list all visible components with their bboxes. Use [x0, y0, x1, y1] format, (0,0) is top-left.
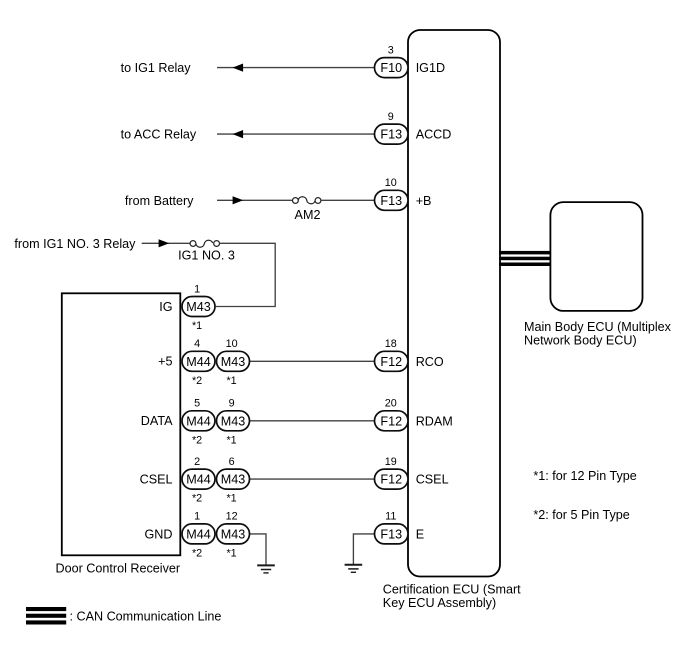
svg-text:M43: M43 [221, 414, 246, 428]
svg-text:F10: F10 [380, 61, 402, 75]
svg-text:IG1 NO. 3: IG1 NO. 3 [178, 249, 235, 263]
svg-text:11: 11 [385, 511, 396, 523]
ground (certification ECU side) [345, 565, 363, 573]
svg-text:IG: IG [159, 300, 172, 314]
svg-text:M44: M44 [186, 473, 211, 487]
svg-text:10: 10 [385, 177, 397, 189]
label: Main Body ECU (Multiplex Network Body ECU) [524, 320, 672, 348]
svg-text:1: 1 [194, 511, 200, 523]
connector F13 (ACCD) [375, 124, 409, 144]
svg-text:10: 10 [226, 338, 238, 350]
svg-text:9: 9 [229, 398, 235, 410]
connector M44 (DATA) [182, 411, 215, 431]
svg-text:+5: +5 [158, 355, 172, 369]
svg-text:E: E [416, 528, 424, 542]
svg-text:Main Body ECU (Multiplex: Main Body ECU (Multiplex [524, 320, 672, 334]
connector F12 (RDAM) [375, 411, 409, 431]
wire: from Battery to fuse AM2 [217, 199, 293, 201]
svg-text:from IG1 NO. 3 Relay: from IG1 NO. 3 Relay [14, 237, 136, 251]
Door Control Receiver box [62, 293, 181, 555]
wire: fuse IG1 NO.3 to M43 IG pin1 [216, 243, 275, 306]
label: Certification ECU (Smart Key ECU Assembly) [383, 582, 521, 610]
wire: F13 pin9 to ACC Relay [217, 133, 375, 135]
connector M43 (DATA) [217, 411, 250, 431]
svg-text:4: 4 [194, 338, 200, 350]
svg-text:F12: F12 [380, 473, 402, 487]
svg-text:AM2: AM2 [295, 208, 321, 222]
connector F12 (RCO) [375, 351, 409, 371]
wire: F10 pin3 to IG1 Relay [217, 67, 375, 69]
svg-text:F12: F12 [380, 414, 402, 428]
connector M44 (GND) [182, 524, 215, 544]
ground (door control receiver side) [257, 565, 275, 573]
svg-text:Network Body ECU): Network Body ECU) [524, 334, 637, 348]
svg-text:Certification ECU (Smart: Certification ECU (Smart [383, 582, 521, 596]
svg-text:Door Control Receiver: Door Control Receiver [56, 561, 181, 575]
svg-text:M44: M44 [186, 355, 211, 369]
svg-text:F13: F13 [380, 128, 402, 142]
wire: M43 pin6 to F12 pin19 CSEL [249, 478, 375, 480]
arrow to ACC Relay [233, 130, 244, 138]
svg-text:from Battery: from Battery [125, 194, 194, 208]
wire: M43 pin9 to F12 pin20 RDAM [249, 420, 375, 422]
svg-text:F13: F13 [380, 528, 402, 542]
svg-text:20: 20 [385, 398, 397, 410]
fuse IG1 NO. 3 [178, 240, 235, 262]
connector M44 (+5) [182, 351, 215, 371]
svg-text:M43: M43 [186, 300, 211, 314]
svg-text:*1: for 12 Pin Type: *1: for 12 Pin Type [533, 469, 636, 483]
svg-text:5: 5 [194, 398, 200, 410]
ECU box: Certification ECU (Smart Key ECU Assembly) [408, 30, 500, 577]
svg-text:2: 2 [194, 456, 200, 468]
svg-text:M44: M44 [186, 528, 211, 542]
svg-text:*2: *2 [192, 375, 202, 387]
svg-text:IG1D: IG1D [416, 61, 445, 75]
connector F13 (E) [375, 524, 409, 544]
wire: fuse AM2 to F13 pin10 [321, 199, 375, 201]
connector F12 (CSEL) [375, 469, 409, 489]
svg-text:F13: F13 [380, 194, 402, 208]
legend: CAN communication line sample [26, 607, 66, 625]
connector M43 (GND) [217, 524, 250, 544]
svg-text:9: 9 [388, 111, 394, 123]
svg-text:*1: *1 [226, 375, 236, 387]
svg-text:*2: *2 [192, 493, 202, 505]
fuse AM2 [293, 197, 321, 222]
svg-text:F12: F12 [380, 355, 402, 369]
svg-text:Key ECU Assembly): Key ECU Assembly) [383, 596, 496, 610]
wire: from IG1 NO.3 Relay to fuse [142, 242, 191, 244]
svg-text:M43: M43 [221, 528, 246, 542]
svg-text:*1: *1 [226, 548, 236, 560]
svg-text:6: 6 [229, 456, 235, 468]
svg-text:RDAM: RDAM [416, 414, 453, 428]
svg-text:M43: M43 [221, 355, 246, 369]
svg-text:DATA: DATA [141, 414, 173, 428]
svg-text:to IG1 Relay: to IG1 Relay [121, 61, 192, 75]
connector M44 (CSEL) [182, 469, 215, 489]
arrow from Battery [233, 196, 244, 204]
connector M43 (CSEL) [217, 469, 250, 489]
svg-text:19: 19 [385, 456, 397, 468]
svg-text:1: 1 [194, 283, 200, 295]
connector F10 (IG1D) [375, 58, 409, 78]
svg-text:*2: *2 [192, 434, 202, 446]
connector M43 (+5) [217, 351, 250, 371]
svg-text:*2: for 5 Pin Type: *2: for 5 Pin Type [533, 508, 629, 522]
svg-text:GND: GND [145, 527, 173, 541]
wire: M43 pin10 to F12 pin18 RCO [249, 360, 375, 362]
svg-text:ACCD: ACCD [416, 128, 452, 142]
svg-text:3: 3 [388, 44, 394, 56]
svg-text:12: 12 [226, 511, 238, 523]
svg-text:*1: *1 [226, 493, 236, 505]
svg-text:RCO: RCO [416, 355, 444, 369]
wire: F13 pin11 E to ground [353, 534, 375, 565]
svg-text:*2: *2 [192, 548, 202, 560]
svg-text:*1: *1 [226, 434, 236, 446]
wire: M43 pin12 GND to ground [249, 534, 266, 565]
svg-text:+B: +B [416, 194, 432, 208]
svg-text:*1: *1 [192, 320, 202, 332]
svg-text:M44: M44 [186, 414, 211, 428]
svg-text:18: 18 [385, 338, 397, 350]
svg-text:to ACC Relay: to ACC Relay [121, 128, 197, 142]
CAN communication line (triple bar bus) [499, 251, 551, 266]
connector F13 (+B) [375, 190, 409, 210]
svg-text:M43: M43 [221, 473, 246, 487]
svg-text:: CAN Communication Line: : CAN Communication Line [70, 609, 222, 623]
ECU box: Main Body ECU (Multiplex Network Body ECU) [550, 202, 642, 311]
arrow to IG1 Relay [233, 64, 244, 72]
connector M43 (IG) [182, 297, 215, 317]
arrow from IG1 NO.3 Relay [159, 239, 170, 247]
svg-text:CSEL: CSEL [416, 473, 449, 487]
svg-text:CSEL: CSEL [140, 473, 173, 487]
